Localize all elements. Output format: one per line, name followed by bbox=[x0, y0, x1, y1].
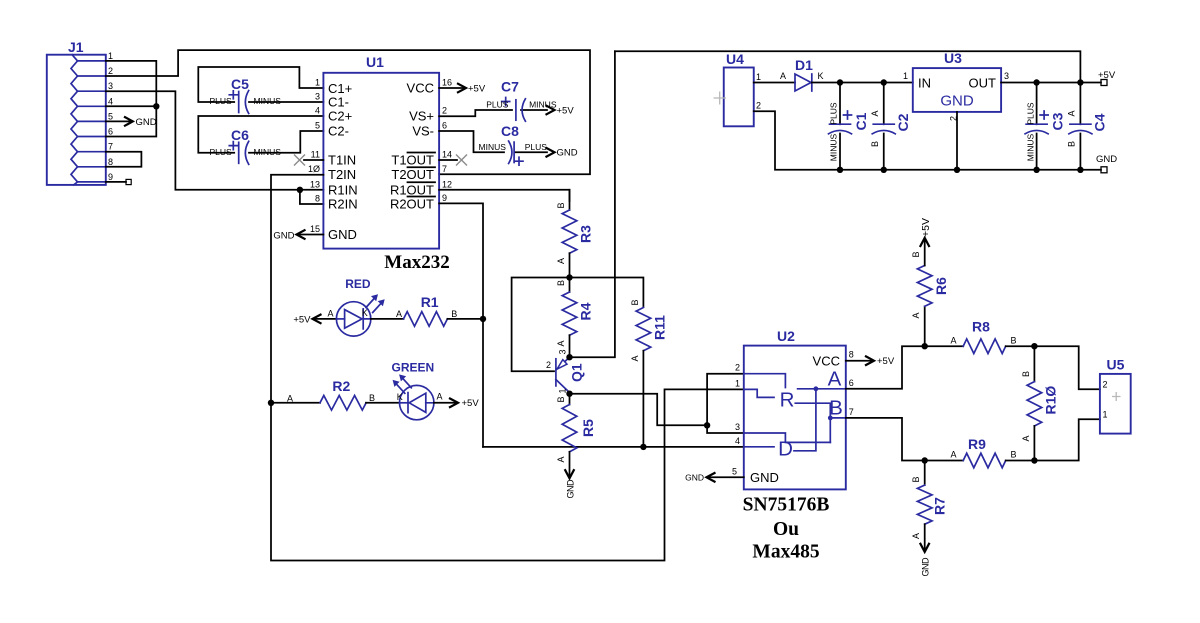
svg-text:16: 16 bbox=[442, 78, 452, 88]
wire collector to +5 top rail bbox=[570, 51, 615, 357]
svg-text:B: B bbox=[451, 309, 457, 319]
wire J1 pin3 to U1 R1IN bbox=[106, 91, 324, 190]
svg-text:9: 9 bbox=[108, 172, 113, 182]
svg-text:GND: GND bbox=[566, 479, 576, 499]
svg-text:4: 4 bbox=[735, 436, 740, 446]
svg-text:GND: GND bbox=[273, 230, 294, 241]
ground J1 pin 5 bbox=[106, 117, 157, 128]
wire LED to R1 bbox=[371, 318, 404, 320]
wire R8.B to U5 pin2 bbox=[1034, 346, 1100, 389]
svg-text:R8: R8 bbox=[972, 319, 990, 335]
terminal GND bbox=[1096, 154, 1117, 173]
resistor R2 bbox=[271, 378, 400, 410]
svg-text:A: A bbox=[780, 71, 786, 81]
svg-text:RED: RED bbox=[345, 277, 371, 291]
svg-text:T2OUT: T2OUT bbox=[391, 167, 434, 182]
svg-text:K: K bbox=[362, 308, 368, 318]
svg-text:1: 1 bbox=[558, 388, 568, 393]
svg-text:C8: C8 bbox=[501, 123, 519, 139]
svg-text:VS+: VS+ bbox=[409, 109, 434, 124]
svg-text:4: 4 bbox=[108, 97, 113, 107]
svg-text:B: B bbox=[556, 202, 566, 208]
svg-text:6: 6 bbox=[442, 121, 447, 131]
svg-text:C1: C1 bbox=[853, 112, 869, 130]
svg-text:GREEN: GREEN bbox=[392, 361, 435, 375]
svg-text:K: K bbox=[818, 71, 824, 81]
node R3/R4 bbox=[566, 274, 572, 280]
connector J1 bbox=[47, 39, 106, 185]
svg-text:T1IN: T1IN bbox=[328, 153, 356, 168]
J1 pin numbers bbox=[108, 51, 113, 182]
svg-text:GND: GND bbox=[136, 117, 157, 128]
svg-text:T2IN: T2IN bbox=[328, 167, 356, 182]
svg-text:8: 8 bbox=[108, 157, 113, 167]
svg-text:VCC: VCC bbox=[813, 354, 840, 369]
svg-text:6: 6 bbox=[849, 378, 854, 388]
svg-text:B: B bbox=[1011, 450, 1017, 460]
svg-text:+5V: +5V bbox=[462, 398, 480, 409]
svg-text:R4: R4 bbox=[578, 302, 594, 320]
svg-text:R1OUT: R1OUT bbox=[390, 182, 434, 197]
svg-text:GND: GND bbox=[750, 470, 779, 485]
svg-text:B: B bbox=[1011, 335, 1017, 345]
svg-text:A: A bbox=[287, 394, 293, 404]
svg-text:R1: R1 bbox=[421, 294, 439, 310]
svg-text:R: R bbox=[780, 389, 795, 412]
svg-text:R2: R2 bbox=[332, 378, 350, 394]
svg-text:D1: D1 bbox=[795, 57, 813, 73]
resistor R1 bbox=[396, 294, 483, 326]
svg-text:J1: J1 bbox=[68, 39, 84, 55]
svg-text:Q1: Q1 bbox=[569, 363, 585, 382]
ground U2 pin 5 bbox=[685, 473, 744, 483]
svg-text:A: A bbox=[396, 309, 402, 319]
U2 pin numbers bbox=[732, 350, 854, 477]
svg-text:A: A bbox=[556, 340, 566, 346]
node J1.4 bbox=[153, 103, 159, 109]
svg-text:U1: U1 bbox=[366, 54, 384, 70]
svg-text:C6: C6 bbox=[231, 127, 249, 143]
svg-text:+5V: +5V bbox=[293, 314, 311, 325]
capacitor C1 bbox=[829, 83, 870, 170]
node R8.B / R10 bbox=[1031, 343, 1037, 349]
wire U2 pin 2 bbox=[707, 374, 744, 433]
svg-text:4: 4 bbox=[315, 106, 320, 116]
wire U3 OUT to +5V pad bbox=[1001, 82, 1101, 84]
svg-text:U5: U5 bbox=[1107, 357, 1125, 373]
svg-text:1Ø: 1Ø bbox=[308, 164, 320, 174]
LED RED bbox=[328, 277, 385, 336]
wire U2 pin 6 A to node bbox=[846, 346, 925, 389]
node U2 pin2 vertical bbox=[704, 422, 710, 428]
svg-text:K: K bbox=[397, 392, 403, 402]
svg-text:A: A bbox=[556, 456, 566, 462]
power +5V GREEN row (right arrow) bbox=[434, 398, 479, 409]
svg-text:3: 3 bbox=[315, 92, 320, 102]
ground R5 bbox=[565, 452, 576, 499]
svg-text:GND: GND bbox=[921, 557, 931, 577]
terminal +5V bbox=[1098, 70, 1116, 86]
wire emitter to U2 pins 2,3 bbox=[570, 394, 708, 426]
svg-text:R7: R7 bbox=[932, 497, 948, 515]
svg-text:R3: R3 bbox=[578, 225, 594, 243]
capacitor C7 bbox=[439, 79, 574, 122]
node R9.B / R10 bbox=[1031, 457, 1037, 463]
svg-text:A: A bbox=[437, 392, 443, 402]
svg-text:A: A bbox=[1021, 435, 1031, 441]
resistor R4 bbox=[556, 278, 594, 358]
svg-text:GND: GND bbox=[1096, 154, 1117, 165]
svg-text:T1OUT: T1OUT bbox=[391, 153, 434, 168]
svg-text:9: 9 bbox=[442, 193, 447, 203]
svg-text:U3: U3 bbox=[944, 50, 962, 66]
svg-text:MINUS: MINUS bbox=[479, 142, 507, 152]
node Q1 emitter bbox=[566, 391, 572, 397]
regulator U3 bbox=[903, 50, 1009, 121]
svg-text:R6: R6 bbox=[933, 277, 949, 295]
svg-text:8: 8 bbox=[315, 194, 320, 204]
svg-text:VCC: VCC bbox=[407, 81, 434, 96]
svg-text:C4: C4 bbox=[1092, 113, 1108, 131]
U1 pin numbers bbox=[308, 78, 452, 235]
wire U4 pin2 to ground rail bbox=[754, 111, 1101, 170]
wire U2 pin 7 B to node bbox=[846, 418, 925, 461]
wire node to R11 top bbox=[570, 278, 644, 308]
capacitor C8 bbox=[439, 123, 578, 165]
connector U5 bbox=[1100, 357, 1131, 434]
svg-text:GND: GND bbox=[940, 93, 974, 110]
svg-text:GND: GND bbox=[328, 227, 357, 242]
svg-text:U2: U2 bbox=[777, 328, 795, 344]
svg-text:7: 7 bbox=[108, 142, 113, 152]
svg-text:R1IN: R1IN bbox=[328, 182, 358, 197]
svg-text:OUT: OUT bbox=[969, 76, 997, 91]
resistor R6 bbox=[911, 239, 949, 346]
svg-text:B: B bbox=[911, 251, 921, 257]
svg-text:R2OUT: R2OUT bbox=[390, 197, 434, 212]
svg-text:1: 1 bbox=[315, 78, 320, 88]
svg-text:8: 8 bbox=[849, 350, 854, 360]
resistor R7 bbox=[911, 461, 947, 540]
svg-text:+5V: +5V bbox=[920, 218, 932, 237]
svg-text:MINUS: MINUS bbox=[829, 133, 839, 161]
svg-text:B: B bbox=[870, 141, 880, 147]
ground R7 bbox=[920, 524, 931, 576]
svg-text:R9: R9 bbox=[968, 436, 986, 452]
wire R1IN to R2IN bbox=[300, 190, 324, 204]
connector U4 bbox=[714, 51, 762, 126]
svg-text:IN: IN bbox=[918, 76, 931, 91]
svg-text:7: 7 bbox=[442, 164, 447, 174]
svg-text:2: 2 bbox=[108, 66, 113, 76]
svg-text:15: 15 bbox=[310, 224, 320, 234]
wire D1 K to U3 IN bbox=[812, 82, 913, 84]
svg-text:C7: C7 bbox=[501, 79, 519, 95]
svg-text:C5: C5 bbox=[231, 76, 249, 92]
capacitor C3 bbox=[1025, 83, 1066, 170]
wire node to Q1 base (feedback box) bbox=[512, 278, 570, 372]
no-connect X pin 14 T1OUT bbox=[439, 159, 457, 161]
capacitor C6 bbox=[198, 116, 323, 164]
svg-text:+5V: +5V bbox=[1098, 70, 1116, 81]
svg-text:12: 12 bbox=[442, 179, 452, 189]
LED GREEN bbox=[392, 361, 443, 420]
power +5V U2 pin 8 bbox=[846, 356, 895, 367]
svg-text:A: A bbox=[870, 110, 880, 116]
svg-text:PLUS: PLUS bbox=[525, 142, 548, 152]
wire J1 pin 9 stub bbox=[106, 181, 126, 183]
svg-text:A: A bbox=[1067, 110, 1077, 116]
svg-text:11: 11 bbox=[311, 150, 320, 160]
svg-text:B: B bbox=[369, 393, 375, 403]
power +5V U1 pin 16 bbox=[439, 83, 486, 94]
resistor R10 bbox=[1021, 346, 1059, 460]
svg-text:2: 2 bbox=[546, 360, 551, 370]
svg-text:R11: R11 bbox=[652, 315, 668, 340]
svg-text:R2IN: R2IN bbox=[328, 197, 358, 212]
transistor Q1 bbox=[546, 349, 585, 393]
wire U1 pin10 T2IN long net to U2 pin1 R bbox=[271, 175, 744, 561]
svg-text:Max485: Max485 bbox=[752, 542, 819, 563]
ground U1 pin 15 bbox=[273, 230, 323, 242]
svg-text:PLUS: PLUS bbox=[210, 96, 233, 106]
node Q1 collector bbox=[566, 354, 572, 360]
svg-text:MINUS: MINUS bbox=[254, 147, 282, 157]
svg-text:MINUS: MINUS bbox=[254, 96, 282, 106]
wire J1 pin2 to U1 T2OUT (top loop) bbox=[106, 50, 590, 174]
svg-text:3: 3 bbox=[735, 422, 740, 432]
svg-text:+5V: +5V bbox=[877, 356, 895, 367]
svg-text:A: A bbox=[951, 450, 957, 460]
svg-text:+5V: +5V bbox=[468, 83, 486, 94]
svg-text:GND: GND bbox=[557, 148, 578, 159]
power +5V RED row (left arrow) bbox=[293, 314, 336, 325]
svg-text:+5V: +5V bbox=[557, 105, 575, 116]
node R11 bottom on D line bbox=[640, 444, 646, 450]
svg-text:PLUS: PLUS bbox=[210, 147, 233, 157]
resistor R8 bbox=[925, 319, 1035, 354]
svg-text:A: A bbox=[911, 533, 921, 539]
svg-text:A: A bbox=[828, 368, 842, 391]
wire U3 pin2 to ground rail bbox=[956, 112, 958, 170]
wire U1 pin9 R2OUT down to D line bbox=[439, 203, 483, 447]
svg-text:1: 1 bbox=[903, 71, 908, 81]
resistor R9 bbox=[925, 436, 1035, 468]
node R2 left bbox=[268, 400, 274, 406]
no-connect X pin 11 T1IN bbox=[294, 155, 305, 166]
wire R9.B to U5 pin1 bbox=[1034, 419, 1100, 460]
svg-text:A: A bbox=[911, 312, 921, 318]
svg-text:B: B bbox=[556, 280, 566, 286]
node R1 B bbox=[480, 316, 486, 322]
svg-text:3: 3 bbox=[108, 81, 113, 91]
resistor R5 bbox=[556, 394, 596, 463]
svg-text:C1-: C1- bbox=[328, 95, 349, 110]
capacitor C5 bbox=[198, 67, 323, 114]
U2 internal wires bbox=[744, 374, 786, 388]
svg-text:A: A bbox=[556, 258, 566, 264]
wire top rail of power section bbox=[615, 51, 1081, 82]
svg-text:MINUS: MINUS bbox=[1025, 133, 1035, 161]
svg-text:U4: U4 bbox=[726, 51, 744, 67]
svg-text:B: B bbox=[911, 476, 921, 482]
svg-text:B: B bbox=[556, 396, 566, 402]
capacitor C2 bbox=[870, 83, 911, 170]
svg-text:5: 5 bbox=[315, 121, 320, 131]
power +5V R6 top bbox=[920, 218, 932, 247]
svg-text:R1Ø: R1Ø bbox=[1043, 386, 1059, 415]
svg-text:13: 13 bbox=[310, 179, 320, 189]
svg-text:14: 14 bbox=[442, 150, 452, 160]
svg-text:R5: R5 bbox=[580, 419, 596, 437]
wire U4 pin1 to D1 bbox=[754, 82, 795, 84]
svg-text:VS-: VS- bbox=[412, 124, 434, 139]
svg-text:2: 2 bbox=[442, 106, 447, 116]
svg-text:5: 5 bbox=[108, 112, 113, 122]
node B bbox=[922, 457, 928, 463]
node R1IN branch bbox=[297, 187, 303, 193]
svg-text:1: 1 bbox=[735, 378, 740, 388]
svg-text:2: 2 bbox=[735, 363, 740, 373]
svg-text:SN75176B: SN75176B bbox=[743, 495, 830, 516]
svg-text:B: B bbox=[630, 299, 640, 305]
svg-text:7: 7 bbox=[849, 407, 854, 417]
svg-text:C2+: C2+ bbox=[328, 109, 352, 124]
svg-text:3: 3 bbox=[558, 349, 568, 354]
svg-text:1: 1 bbox=[108, 51, 113, 61]
wire U1 pin12 R1OUT to R3 bbox=[439, 190, 569, 201]
svg-text:2: 2 bbox=[1103, 379, 1108, 389]
svg-text:A: A bbox=[951, 335, 957, 345]
svg-text:6: 6 bbox=[108, 127, 113, 137]
svg-text:C2-: C2- bbox=[328, 124, 349, 139]
svg-text:3: 3 bbox=[1004, 71, 1009, 81]
svg-text:1: 1 bbox=[756, 72, 761, 82]
svg-text:GND: GND bbox=[685, 473, 704, 483]
resistor R11 bbox=[630, 299, 668, 446]
wire D line to U2 pin 4 bbox=[483, 446, 744, 448]
svg-text:PLUS: PLUS bbox=[1025, 102, 1035, 125]
wire J1 pins 7-8 bbox=[106, 152, 142, 167]
svg-text:PLUS: PLUS bbox=[829, 102, 839, 125]
svg-text:Ou: Ou bbox=[773, 519, 799, 540]
svg-text:1: 1 bbox=[1103, 409, 1108, 419]
svg-text:A: A bbox=[328, 309, 334, 319]
svg-text:5: 5 bbox=[732, 466, 737, 476]
svg-text:Max232: Max232 bbox=[384, 252, 449, 273]
svg-text:C3: C3 bbox=[1050, 112, 1066, 130]
resistor R3 bbox=[556, 190, 594, 278]
op-amp U1 Max232 bbox=[323, 54, 449, 273]
svg-text:2: 2 bbox=[756, 101, 761, 111]
wire J1 pins 1-4-6 bbox=[106, 61, 157, 137]
svg-text:C2: C2 bbox=[895, 113, 911, 131]
svg-text:PLUS: PLUS bbox=[486, 100, 509, 110]
driver U2 SN75176B bbox=[744, 328, 846, 489]
node A bbox=[922, 343, 928, 349]
svg-text:B: B bbox=[1021, 371, 1031, 377]
capacitor C4 bbox=[1067, 83, 1108, 170]
diode D1 bbox=[780, 57, 824, 91]
svg-text:B: B bbox=[1067, 141, 1077, 147]
svg-text:A: A bbox=[630, 355, 640, 361]
